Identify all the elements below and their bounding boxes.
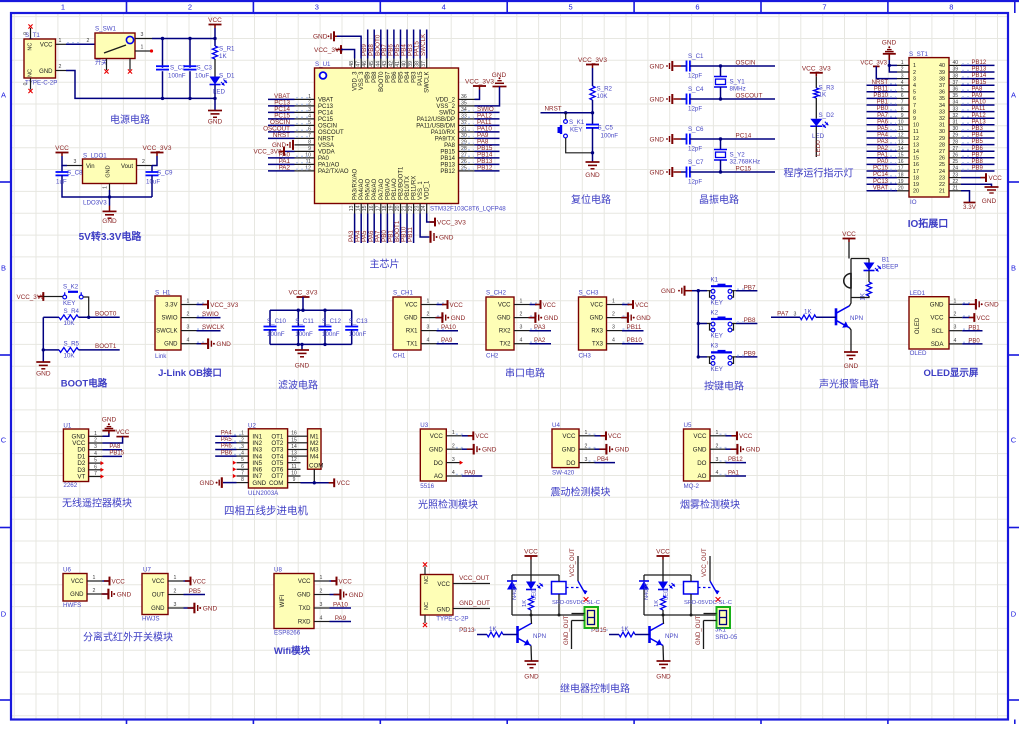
svg-text:12pF: 12pF <box>688 106 702 113</box>
svg-text:27: 27 <box>461 152 467 158</box>
svg-text:21: 21 <box>402 205 408 211</box>
svg-text:VCC: VCC <box>339 578 353 585</box>
svg-text:PC14: PC14 <box>736 132 752 139</box>
svg-text:VCC_3V3: VCC_3V3 <box>578 57 607 64</box>
svg-text:1: 1 <box>427 299 430 305</box>
svg-text:S_D1: S_D1 <box>219 73 235 80</box>
svg-text:PB15: PB15 <box>972 80 987 86</box>
svg-text:3.3V: 3.3V <box>165 303 177 309</box>
svg-text:CH3: CH3 <box>579 353 592 360</box>
svg-text:27: 27 <box>953 146 959 152</box>
svg-text:PB3: PB3 <box>972 126 984 132</box>
svg-text:12: 12 <box>913 136 919 142</box>
svg-text:8: 8 <box>308 139 311 145</box>
svg-text:GND: GND <box>636 315 651 322</box>
svg-text:17: 17 <box>898 166 904 172</box>
svg-text:9: 9 <box>293 477 296 483</box>
svg-text:VCC: VCC <box>405 303 418 309</box>
svg-text:1: 1 <box>612 299 615 305</box>
svg-text:12: 12 <box>305 165 311 171</box>
svg-text:5516: 5516 <box>420 483 434 490</box>
svg-text:2262: 2262 <box>63 482 77 489</box>
svg-text:PB5: PB5 <box>399 71 405 83</box>
svg-text:SDA: SDA <box>931 341 945 348</box>
svg-text:PB11: PB11 <box>407 227 414 242</box>
svg-text:GND: GND <box>661 288 676 295</box>
svg-text:滤波电路: 滤波电路 <box>278 379 318 392</box>
svg-text:GND: GND <box>746 447 761 454</box>
svg-text:ESP8266: ESP8266 <box>274 630 301 637</box>
svg-text:S_R5: S_R5 <box>64 341 80 348</box>
svg-text:PB9: PB9 <box>366 71 372 83</box>
svg-text:25: 25 <box>953 159 959 165</box>
svg-text:22: 22 <box>939 182 945 188</box>
svg-text:STM32F103C8T6_LQFP48: STM32F103C8T6_LQFP48 <box>430 206 506 213</box>
svg-text:VDDA: VDDA <box>318 149 335 155</box>
svg-text:PA11/USB/DM: PA11/USB/DM <box>416 123 455 129</box>
svg-text:GND: GND <box>844 363 859 370</box>
svg-text:VCC_3V3: VCC_3V3 <box>314 47 343 54</box>
svg-text:S_C7: S_C7 <box>688 159 704 166</box>
svg-text:VCC_3V3: VCC_3V3 <box>437 220 466 227</box>
svg-text:2: 2 <box>427 312 430 318</box>
svg-text:22: 22 <box>408 205 414 211</box>
svg-text:VCC: VCC <box>55 145 69 152</box>
svg-text:4: 4 <box>320 616 323 622</box>
svg-text:复位电路: 复位电路 <box>571 193 611 206</box>
svg-text:10K: 10K <box>64 320 76 327</box>
svg-text:S_C3: S_C3 <box>197 65 213 72</box>
svg-text:28: 28 <box>461 146 467 152</box>
svg-text:PA0: PA0 <box>464 471 476 477</box>
svg-text:PA5/AO: PA5/AO <box>366 178 372 200</box>
svg-text:SRD-05VDC-SL-C: SRD-05VDC-SL-C <box>684 600 732 606</box>
svg-text:PA12: PA12 <box>972 113 987 119</box>
svg-text:PA8: PA8 <box>109 444 121 450</box>
svg-text:N4007: N4007 <box>644 583 650 600</box>
svg-text:PB15: PB15 <box>591 627 607 634</box>
svg-text:主芯片: 主芯片 <box>370 258 400 271</box>
svg-text:7: 7 <box>308 133 311 139</box>
svg-text:PA2/TX/AO: PA2/TX/AO <box>318 169 349 175</box>
svg-text:15: 15 <box>913 156 919 162</box>
svg-text:VT: VT <box>77 474 85 481</box>
svg-text:47: 47 <box>356 61 362 67</box>
svg-text:SRD-05VDC-SL-C: SRD-05VDC-SL-C <box>552 600 600 606</box>
svg-text:15: 15 <box>362 205 368 211</box>
svg-text:RXD: RXD <box>298 620 311 626</box>
svg-text:23: 23 <box>939 175 945 181</box>
svg-text:程序运行指示灯: 程序运行指示灯 <box>784 167 854 180</box>
svg-text:PB13: PB13 <box>459 627 475 634</box>
svg-text:16: 16 <box>898 159 904 165</box>
svg-text:1K: 1K <box>621 626 629 633</box>
svg-text:ULN2003A: ULN2003A <box>248 490 279 497</box>
svg-text:烟雾检测模块: 烟雾检测模块 <box>680 498 740 511</box>
svg-text:PA9: PA9 <box>972 93 984 99</box>
svg-text:VCC_OUT: VCC_OUT <box>459 575 489 582</box>
svg-text:10uF: 10uF <box>195 73 209 80</box>
svg-text:48: 48 <box>349 61 355 67</box>
svg-text:18: 18 <box>913 175 919 181</box>
svg-text:PA2: PA2 <box>877 146 889 152</box>
svg-text:BEEP: BEEP <box>882 263 899 270</box>
svg-text:NC: NC <box>424 602 430 610</box>
svg-text:35: 35 <box>461 100 467 106</box>
svg-text:S_C1: S_C1 <box>688 53 704 60</box>
svg-text:11: 11 <box>913 129 919 135</box>
svg-text:Link: Link <box>155 353 167 360</box>
svg-text:PA2: PA2 <box>534 337 546 344</box>
svg-text:12pF: 12pF <box>688 146 702 153</box>
svg-text:GND: GND <box>524 674 539 681</box>
svg-text:17: 17 <box>375 205 381 211</box>
svg-text:PB6: PB6 <box>972 146 984 152</box>
svg-text:BOOT电路: BOOT电路 <box>61 378 108 390</box>
svg-text:GND: GND <box>650 136 665 143</box>
svg-text:2: 2 <box>142 159 145 165</box>
svg-text:U1: U1 <box>63 422 71 429</box>
svg-text:1: 1 <box>585 430 588 436</box>
svg-text:33: 33 <box>953 106 959 112</box>
svg-text:14: 14 <box>913 149 919 155</box>
svg-text:VCC_OUT: VCC_OUT <box>702 548 708 577</box>
svg-text:Vout: Vout <box>121 164 133 170</box>
svg-text:4: 4 <box>308 113 311 119</box>
svg-text:VCC: VCC <box>430 433 444 440</box>
svg-text:26: 26 <box>953 153 959 159</box>
svg-text:S_C10: S_C10 <box>267 318 286 325</box>
svg-text:PA5: PA5 <box>877 126 889 132</box>
svg-text:VSSA: VSSA <box>318 143 334 149</box>
svg-text:S_CH2: S_CH2 <box>486 290 507 297</box>
svg-text:S_R3: S_R3 <box>819 85 835 92</box>
svg-text:5: 5 <box>569 3 573 12</box>
svg-text:OSCIN: OSCIN <box>318 123 337 129</box>
svg-text:PA9: PA9 <box>335 615 347 622</box>
svg-text:6: 6 <box>913 96 916 102</box>
svg-text:S_C11: S_C11 <box>295 318 314 325</box>
svg-text:VCC: VCC <box>116 429 130 436</box>
svg-text:PA4: PA4 <box>877 133 889 139</box>
svg-text:NC: NC <box>28 43 34 51</box>
svg-text:GND: GND <box>200 480 215 487</box>
svg-text:S_R2: S_R2 <box>597 86 613 93</box>
svg-text:29: 29 <box>939 136 945 142</box>
svg-text:7: 7 <box>913 103 916 109</box>
svg-text:100nF: 100nF <box>267 331 285 338</box>
svg-text:22: 22 <box>953 179 959 185</box>
svg-text:33: 33 <box>939 109 945 115</box>
svg-text:VDD_2: VDD_2 <box>436 97 456 103</box>
svg-text:PA9: PA9 <box>441 337 453 344</box>
svg-text:100nF: 100nF <box>295 331 313 338</box>
svg-text:1K: 1K <box>654 600 660 607</box>
svg-text:VCC_3V3: VCC_3V3 <box>289 290 318 297</box>
svg-text:3: 3 <box>174 602 177 608</box>
svg-text:K2: K2 <box>711 309 719 316</box>
svg-text:32: 32 <box>939 116 945 122</box>
svg-text:NRST: NRST <box>872 80 889 86</box>
svg-text:按键电路: 按键电路 <box>704 380 744 393</box>
svg-text:2: 2 <box>320 589 323 595</box>
svg-text:VCC: VCC <box>543 302 557 309</box>
svg-text:36: 36 <box>461 94 467 100</box>
svg-text:PB14: PB14 <box>440 156 455 162</box>
svg-text:10K: 10K <box>597 93 609 100</box>
svg-text:SWCLK: SWCLK <box>202 324 225 331</box>
svg-text:B1: B1 <box>882 256 890 263</box>
svg-text:38: 38 <box>415 61 421 67</box>
svg-text:DO: DO <box>697 460 706 467</box>
svg-text:1: 1 <box>308 94 311 100</box>
svg-text:45: 45 <box>369 61 375 67</box>
svg-text:PB6: PB6 <box>221 450 233 456</box>
svg-text:9: 9 <box>901 113 904 119</box>
svg-text:VSS_1: VSS_1 <box>418 181 424 200</box>
svg-text:32: 32 <box>953 113 959 119</box>
svg-text:10: 10 <box>898 120 904 126</box>
svg-text:B: B <box>1 264 6 273</box>
svg-text:GND: GND <box>39 69 53 75</box>
svg-text:SWCLK: SWCLK <box>420 33 427 56</box>
svg-text:PB6: PB6 <box>392 71 398 83</box>
svg-text:PB0: PB0 <box>968 339 980 345</box>
svg-text:1: 1 <box>61 3 65 12</box>
svg-text:13: 13 <box>913 142 919 148</box>
svg-text:MQ-2: MQ-2 <box>684 483 700 490</box>
svg-text:GND_OUT: GND_OUT <box>459 600 490 607</box>
svg-text:VCC: VCC <box>656 549 670 556</box>
svg-text:PA7: PA7 <box>777 310 789 317</box>
svg-text:25: 25 <box>939 162 945 168</box>
svg-text:S_R1: S_R1 <box>219 46 235 53</box>
svg-text:12pF: 12pF <box>688 179 702 186</box>
svg-text:7: 7 <box>241 471 244 477</box>
svg-text:34: 34 <box>461 107 467 113</box>
svg-text:VSS_3: VSS_3 <box>359 71 365 90</box>
svg-text:继电器控制电路: 继电器控制电路 <box>560 682 630 695</box>
svg-text:DO: DO <box>434 460 443 467</box>
svg-text:S_U1: S_U1 <box>315 61 331 68</box>
svg-text:5: 5 <box>901 87 904 93</box>
svg-text:PB3: PB3 <box>412 71 418 83</box>
svg-text:PA0: PA0 <box>318 156 330 162</box>
svg-text:3: 3 <box>94 444 97 450</box>
svg-text:VCC: VCC <box>562 433 576 440</box>
svg-text:4: 4 <box>954 338 957 344</box>
svg-text:PA10: PA10 <box>333 602 348 609</box>
svg-text:SW-420: SW-420 <box>552 470 575 477</box>
svg-text:SWIO: SWIO <box>202 311 219 318</box>
svg-text:3: 3 <box>901 73 904 79</box>
svg-text:S_Y2: S_Y2 <box>730 152 746 159</box>
svg-text:PA5: PA5 <box>221 437 233 443</box>
svg-text:OSCOUT: OSCOUT <box>318 130 344 136</box>
svg-text:16: 16 <box>913 162 919 168</box>
svg-text:6: 6 <box>94 464 97 470</box>
svg-text:RX2: RX2 <box>499 329 511 335</box>
svg-text:B: B <box>1011 264 1016 273</box>
svg-text:GND: GND <box>102 218 117 225</box>
svg-text:VDD_3: VDD_3 <box>353 71 359 91</box>
svg-text:RX3: RX3 <box>591 329 603 335</box>
svg-text:PB8: PB8 <box>372 71 378 83</box>
svg-text:VBAT: VBAT <box>318 97 334 103</box>
svg-text:VCC: VCC <box>842 231 856 238</box>
svg-text:13: 13 <box>349 205 355 211</box>
svg-text:PA10/RX: PA10/RX <box>431 130 455 136</box>
svg-text:7: 7 <box>901 100 904 106</box>
svg-text:PB12: PB12 <box>440 169 455 175</box>
svg-text:GND: GND <box>615 447 630 454</box>
svg-text:8: 8 <box>913 109 916 115</box>
svg-text:VCC: VCC <box>989 175 1003 182</box>
svg-text:A: A <box>1 91 6 100</box>
svg-text:3: 3 <box>716 457 719 463</box>
svg-text:PA9/TX: PA9/TX <box>435 136 455 142</box>
svg-text:SWIO: SWIO <box>439 110 455 116</box>
svg-text:PB7: PB7 <box>385 71 391 83</box>
svg-text:S_K1: S_K1 <box>569 119 585 126</box>
svg-text:2: 2 <box>188 3 192 12</box>
svg-text:43: 43 <box>382 61 388 67</box>
svg-text:20: 20 <box>395 205 401 211</box>
svg-text:NPN: NPN <box>665 633 678 640</box>
svg-text:VCC: VCC <box>450 302 464 309</box>
svg-text:OSCIN: OSCIN <box>736 59 756 66</box>
svg-text:S_CH3: S_CH3 <box>579 290 600 297</box>
svg-text:8: 8 <box>241 477 244 483</box>
svg-text:GND: GND <box>439 235 454 242</box>
svg-text:OUT: OUT <box>152 593 165 599</box>
svg-text:COM: COM <box>309 462 323 469</box>
svg-text:PB7: PB7 <box>972 152 984 158</box>
svg-text:11: 11 <box>898 126 903 132</box>
svg-text:KEY: KEY <box>711 366 723 373</box>
svg-text:4: 4 <box>427 338 430 344</box>
svg-text:42: 42 <box>388 61 394 67</box>
svg-text:PC14: PC14 <box>873 172 889 178</box>
svg-text:32: 32 <box>461 120 467 126</box>
svg-text:3: 3 <box>241 444 244 450</box>
svg-text:10: 10 <box>291 471 297 477</box>
svg-text:PA10: PA10 <box>972 100 987 106</box>
svg-text:N4007: N4007 <box>512 583 518 600</box>
svg-text:Wifi模块: Wifi模块 <box>274 645 311 657</box>
svg-text:PB10: PB10 <box>627 337 643 344</box>
svg-text:GND: GND <box>585 172 600 179</box>
svg-text:19: 19 <box>913 182 919 188</box>
svg-text:开关: 开关 <box>95 59 107 67</box>
svg-text:PC14: PC14 <box>318 110 334 116</box>
svg-text:3: 3 <box>141 32 144 38</box>
svg-text:GND: GND <box>252 480 266 487</box>
svg-text:38: 38 <box>953 73 959 79</box>
svg-text:OLED显示屏: OLED显示屏 <box>924 368 979 379</box>
svg-text:VCC: VCC <box>977 315 991 322</box>
svg-text:2: 2 <box>93 588 96 594</box>
svg-text:2: 2 <box>87 38 90 44</box>
svg-text:GND: GND <box>203 605 218 612</box>
svg-text:VCC: VCC <box>40 43 53 49</box>
svg-text:BOOT0: BOOT0 <box>95 310 117 317</box>
svg-text:TYPE-C-2P: TYPE-C-2P <box>25 80 57 87</box>
svg-text:PB13: PB13 <box>440 162 455 168</box>
svg-text:GND: GND <box>437 608 451 614</box>
svg-text:PA8: PA8 <box>444 143 456 149</box>
svg-text:4: 4 <box>241 451 244 457</box>
svg-text:NC: NC <box>28 69 34 77</box>
svg-text:PA7/AO: PA7/AO <box>379 178 385 200</box>
svg-text:8: 8 <box>949 3 953 12</box>
svg-text:5: 5 <box>241 457 244 463</box>
svg-text:PA11: PA11 <box>972 106 986 112</box>
svg-text:3: 3 <box>913 76 916 82</box>
svg-text:PB7: PB7 <box>744 284 756 291</box>
svg-text:IO拓展口: IO拓展口 <box>908 217 949 230</box>
svg-text:BOOT1: BOOT1 <box>95 343 117 350</box>
svg-text:GND: GND <box>497 316 511 322</box>
svg-text:CH2: CH2 <box>486 353 499 360</box>
svg-text:12: 12 <box>291 457 297 463</box>
svg-text:6: 6 <box>308 126 311 132</box>
svg-text:GND: GND <box>404 316 418 322</box>
svg-text:2: 2 <box>612 312 615 318</box>
svg-text:GND: GND <box>984 302 999 309</box>
svg-text:PA12/USB/DP: PA12/USB/DP <box>417 117 455 123</box>
svg-text:4: 4 <box>520 338 523 344</box>
svg-text:26: 26 <box>461 159 467 165</box>
svg-text:分离式红外开关模块: 分离式红外开关模块 <box>83 631 173 644</box>
svg-text:PC15: PC15 <box>873 166 889 172</box>
svg-text:3: 3 <box>427 325 430 331</box>
svg-text:35: 35 <box>953 93 959 99</box>
svg-text:PB4: PB4 <box>597 457 609 463</box>
svg-text:1: 1 <box>103 186 109 189</box>
svg-text:KEY: KEY <box>63 300 75 307</box>
svg-text:29: 29 <box>461 139 467 145</box>
svg-text:27: 27 <box>939 149 945 155</box>
svg-text:1: 1 <box>452 430 455 436</box>
svg-text:8: 8 <box>901 106 904 112</box>
svg-text:3.3V: 3.3V <box>963 204 977 211</box>
svg-text:U6: U6 <box>63 567 71 574</box>
svg-text:PC15: PC15 <box>736 165 752 172</box>
svg-text:S_C9: S_C9 <box>157 170 173 177</box>
svg-text:VCC_3V3: VCC_3V3 <box>802 65 831 72</box>
svg-text:1: 1 <box>59 38 62 44</box>
svg-text:M4: M4 <box>310 453 319 460</box>
svg-text:S_C8: S_C8 <box>67 170 83 177</box>
svg-text:3: 3 <box>74 159 77 165</box>
svg-text:14: 14 <box>291 444 297 450</box>
svg-text:PA13: PA13 <box>972 119 987 125</box>
svg-text:OSCOUT: OSCOUT <box>736 92 763 99</box>
svg-text:GND: GND <box>297 593 311 599</box>
svg-text:光照检测模块: 光照检测模块 <box>418 498 478 511</box>
svg-text:37: 37 <box>939 83 945 89</box>
svg-text:28: 28 <box>939 142 945 148</box>
svg-text:VCC: VCC <box>337 480 351 487</box>
svg-text:GND: GND <box>650 96 665 103</box>
svg-text:GND: GND <box>451 315 466 322</box>
svg-text:VCC: VCC <box>739 433 753 440</box>
svg-text:PB12: PB12 <box>972 60 987 66</box>
svg-text:6: 6 <box>695 3 699 12</box>
svg-text:2: 2 <box>452 443 455 449</box>
svg-text:VCC: VCC <box>475 433 489 440</box>
